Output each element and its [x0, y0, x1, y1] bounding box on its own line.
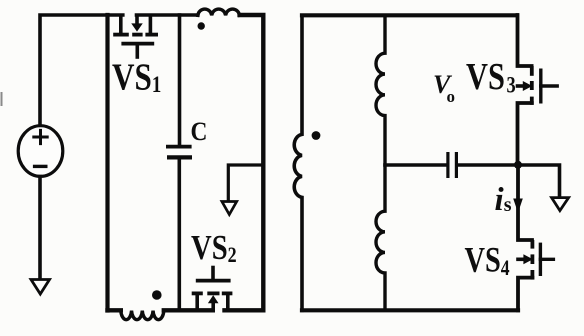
transformer secondary (upper and lower halves) on middle rail: [376, 15, 385, 310]
wire capacitor to node: [458, 163, 518, 167]
VS3 gate bar: [539, 69, 542, 104]
wire top rail right cell: [302, 13, 517, 17]
VS3 source stub and wire to node: [518, 103, 532, 165]
VS4 channel bar drain: [531, 240, 535, 249]
polarity dot of L2: [152, 290, 162, 300]
capacitor C branch upper wire: [178, 15, 182, 145]
wire center tap to capacitor: [385, 163, 446, 167]
minus mark: [35, 165, 46, 168]
VS4 drain wire from node: [518, 165, 532, 240]
svg-text:o: o: [447, 87, 456, 106]
transistor VS1: [113, 16, 158, 57]
VS3 gate lead: [541, 84, 557, 87]
wire node to right ground arrow: [518, 165, 560, 197]
inductor L2 (bottom coil): [121, 311, 164, 320]
capacitor C plates: [166, 145, 192, 149]
ground arrow (right, open): [552, 198, 569, 211]
VS4 channel bar middle: [531, 254, 535, 264]
svg-text:VS2: VS2: [191, 227, 237, 267]
VS2 left stub: [195, 295, 199, 309]
svg-text:VS3: VS3: [466, 56, 516, 98]
VS4 channel bar source: [531, 270, 535, 280]
capacitor C branch lower wire: [178, 160, 182, 311]
label VS3: [466, 56, 516, 98]
plus mark: [34, 130, 47, 143]
transistor VS3: [518, 15, 558, 165]
VS3 channel bar middle: [530, 81, 534, 90]
svg-text:VS1: VS1: [112, 56, 161, 99]
VS2 body stub with arrow: [209, 296, 217, 302]
wire bottom rail right cell: [302, 308, 518, 312]
inductor L1 (top coil): [198, 9, 240, 15]
scan speck left edge: [1, 93, 3, 105]
VS1 channel bar middle: [132, 33, 142, 37]
VS3 drain wire from top rail: [518, 15, 532, 66]
label VS4: [465, 239, 510, 280]
wire bottom segment to VS2: [164, 308, 213, 312]
svg-text:s: s: [504, 194, 512, 216]
VS1 gate lead: [136, 46, 140, 58]
label VS1: [112, 56, 161, 99]
node junction dot: [514, 161, 522, 169]
arrow head (mid, open): [222, 202, 237, 215]
VS3 channel bar drain: [530, 66, 534, 76]
current is arrow (solid): [514, 199, 521, 210]
VS1 source stub: [149, 16, 153, 33]
wire top-left segment (source to VS1 drain): [40, 15, 123, 126]
VS2 channel bar middle: [207, 291, 219, 295]
VS1 body stub with arrow: [135, 16, 139, 25]
wire top segment VS1 source to coil: [137, 13, 198, 17]
VS4 source stub and wire to bottom rail: [518, 278, 532, 311]
wire mid branch to gate-drive arrow: [228, 165, 263, 201]
wire bottom-left segment: [108, 308, 121, 312]
ground arrow (left): [31, 280, 50, 295]
svg-text:C: C: [191, 118, 208, 146]
transformer primary winding with wire: [294, 15, 302, 310]
polarity dot of L1: [198, 22, 205, 29]
VS2 channel bar left: [192, 291, 203, 295]
wire top-right corner of left cell and right vertical rail: [225, 15, 264, 310]
VS3 body arrow: [518, 84, 525, 88]
VS4 gate bar: [539, 243, 542, 276]
VS2 right stub: [226, 295, 230, 309]
VS2 gate lead: [211, 268, 215, 280]
svg-text:VS4: VS4: [465, 239, 510, 280]
wire left branch vertical: [105, 15, 109, 311]
VS1 channel bar source: [145, 33, 158, 37]
VS1 drain stub: [119, 16, 123, 33]
label VS2: [191, 227, 237, 267]
VS2 channel bar right: [222, 291, 233, 295]
VS1 gate bar: [121, 42, 154, 46]
VS3 channel bar source: [530, 97, 534, 105]
VS2 gate bar: [196, 279, 231, 283]
VS4 body arrow: [518, 257, 525, 261]
transistor VS4: [518, 165, 553, 310]
label C: [191, 118, 208, 146]
label is: [495, 182, 505, 218]
VS4 gate lead: [540, 258, 553, 261]
VS1 channel bar drain: [113, 33, 129, 37]
polarity dot primary: [312, 131, 321, 140]
capacitor (output) plates: [446, 152, 449, 178]
voltage source Us: [18, 126, 63, 177]
transistor VS2: [192, 268, 233, 310]
wire source bottom lead: [38, 177, 42, 279]
label Vo: [433, 70, 453, 99]
